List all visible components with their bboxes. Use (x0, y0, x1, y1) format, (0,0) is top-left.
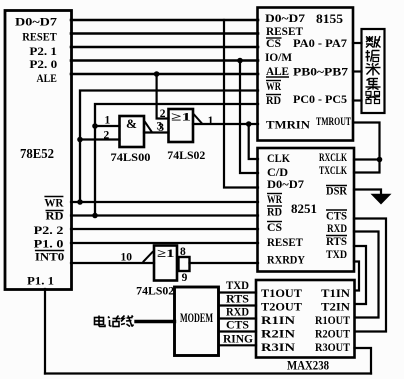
svg-text:P1. 1: P1. 1 (27, 274, 54, 288)
svg-text:8: 8 (180, 246, 186, 258)
pin8-9 tie loop of U8 (179, 257, 190, 271)
wire MODEM RXD to MAX238 R1IN (219, 317, 256, 319)
hanzi label data-collector (vertical) (366, 36, 381, 104)
wire U7 output to 8155 TMRIN (193, 123, 258, 125)
svg-text:TXD: TXD (326, 247, 347, 261)
svg-text:≥1: ≥1 (171, 110, 191, 124)
wire MODEM CTS to MAX238 R2IN (219, 330, 256, 332)
svg-text:RXCLK: RXCLK (319, 150, 347, 164)
wire 8155 PC to collector (353, 99, 362, 101)
svg-text:RTS: RTS (226, 292, 249, 306)
svg-text:RING: RING (223, 332, 253, 346)
nor gate U7 74LS02a box (169, 109, 194, 142)
svg-text:INT0: INT0 (35, 250, 64, 264)
wire U8 tied inputs to 8251 RXRDY (190, 262, 259, 264)
wire U6 input 2 from WR riser (80, 138, 120, 140)
svg-text:R3IN: R3IN (261, 340, 295, 354)
svg-text:2: 2 (160, 108, 166, 120)
svg-text:78E52: 78E52 (20, 146, 54, 161)
wire INT0 to U8 output (71, 262, 154, 264)
svg-text:RESET: RESET (267, 235, 303, 249)
svg-text:TMRIN: TMRIN (266, 118, 310, 132)
svg-text:74LS02: 74LS02 (167, 150, 205, 162)
wire WR 78E52 to 8251 WR (71, 201, 258, 203)
svg-text:2: 2 (104, 130, 110, 142)
wire MODEM TXD to MAX238 T1OUT (219, 291, 256, 293)
hanzi cai (366, 63, 381, 76)
svg-text:R2IN: R2IN (261, 327, 295, 341)
svg-text:P2. 1: P2. 1 (29, 44, 57, 58)
svg-text:T2OUT: T2OUT (261, 300, 302, 314)
node dot RD riser (92, 213, 98, 219)
svg-text:D0~D7: D0~D7 (265, 11, 305, 25)
svg-text:ALE: ALE (37, 71, 57, 85)
svg-text:P2. 2: P2. 2 (34, 223, 64, 237)
node dot input2 (77, 137, 83, 143)
hanzi ju (366, 50, 380, 62)
svg-text:R1OUT: R1OUT (315, 313, 350, 327)
svg-text:8155: 8155 (316, 11, 344, 26)
MCU U1 78E52 box (5, 11, 72, 290)
wire MODEM RTS to MAX238 T2OUT (219, 304, 256, 306)
svg-text:T1IN: T1IN (321, 286, 350, 300)
wire R3OUT to bottom rail (355, 348, 372, 374)
svg-text:RXD: RXD (226, 305, 249, 319)
wire MODEM RING to MAX238 R3IN (219, 344, 256, 346)
wire RXD loop to R1OUT (354, 232, 379, 318)
hanzi dian (95, 316, 106, 327)
svg-text:&: & (126, 116, 137, 131)
node dot input1 (92, 123, 98, 129)
8155 U2 box (258, 8, 354, 141)
svg-text:TXD: TXD (226, 278, 249, 292)
wire P1.0 to 8251 RESET (71, 242, 258, 244)
svg-text:≥1: ≥1 (157, 246, 175, 260)
wire RXCLK (354, 158, 380, 160)
svg-text:P2. 0: P2. 0 (29, 57, 57, 71)
wire D0~D7 bus 78E52 to 8155 (71, 19, 258, 22)
wire ALE to 8155 ALE (71, 73, 258, 76)
wire TXD loop to T1IN (354, 262, 359, 291)
wire RD to 8155 RD (95, 104, 258, 216)
svg-text:9: 9 (182, 272, 188, 284)
svg-text:74LS00: 74LS00 (111, 152, 151, 164)
wire 8155 PA to collector (353, 42, 362, 44)
wire RD 78E52 to 8251 RD (71, 214, 258, 216)
wire RESET 78E52 to 8155 (71, 32, 258, 35)
svg-text:1: 1 (208, 115, 214, 127)
svg-text:D0~D7: D0~D7 (267, 177, 304, 191)
svg-text:3: 3 (158, 122, 164, 134)
svg-text:RESET: RESET (22, 30, 57, 44)
wire 8155 PB to collector (353, 70, 362, 72)
wire P2.2 to 8251 CS (71, 228, 258, 230)
wire U6 output to U7 input 3 (144, 131, 169, 133)
svg-text:T1OUT: T1OUT (261, 286, 302, 300)
hanzi xian (121, 316, 134, 327)
svg-text:D0~D7: D0~D7 (15, 15, 57, 29)
hanzi shu (366, 36, 381, 48)
svg-text:TMROUT: TMROUT (316, 114, 351, 128)
wire CTS loop to R2OUT (354, 219, 386, 332)
wire P2.0 branch to 8251 C/D (240, 61, 258, 174)
data collector box (362, 29, 385, 113)
node dot WR riser (77, 199, 83, 205)
svg-text:IO/M: IO/M (265, 50, 292, 64)
wire WR to 8155 WR (80, 91, 258, 203)
svg-text:T2IN: T2IN (321, 300, 350, 314)
svg-text:CTS: CTS (226, 318, 249, 332)
svg-text:74LS02: 74LS02 (136, 286, 174, 298)
wire P1.1 down from 78E52 (44, 289, 46, 374)
svg-text:MAX238: MAX238 (287, 359, 329, 373)
wire branch to 8251 CLK (249, 124, 258, 159)
slash on U8 output (144, 252, 153, 262)
svg-text:CLK: CLK (267, 151, 291, 165)
svg-text:R1IN: R1IN (261, 313, 295, 327)
svg-text:MODEM: MODEM (180, 311, 213, 325)
slash on U7 output (194, 115, 202, 124)
hanzi ji (366, 79, 381, 90)
wire DSR to ground (354, 190, 381, 196)
node dot RXCLK (377, 157, 383, 163)
svg-text:10: 10 (121, 252, 133, 264)
node dot ALE branch (154, 71, 160, 77)
svg-text:R3OUT: R3OUT (315, 340, 350, 354)
slash on U6 output (145, 122, 152, 132)
svg-text:1: 1 (105, 115, 111, 127)
nor gate U8 74LS02b box (154, 246, 177, 281)
svg-text:PB0~PB7: PB0~PB7 (293, 65, 348, 79)
svg-text:PC0 - PC5: PC0 - PC5 (293, 92, 347, 106)
hanzi hua (108, 316, 120, 327)
svg-text:RXRDY: RXRDY (267, 253, 305, 267)
svg-text:R2OUT: R2OUT (315, 327, 350, 341)
nand gate U6 74LS00 box (120, 116, 145, 147)
svg-text:RXD: RXD (327, 221, 347, 235)
wire P2.1 to 8155 CS (71, 46, 258, 49)
telephone line wire (136, 320, 175, 323)
MODEM U5 box (175, 287, 219, 356)
wire TMROUT loop to RXCLK TXCLK (353, 123, 380, 173)
svg-text:PA0 - PA7: PA0 - PA7 (293, 36, 347, 50)
ground symbol (371, 194, 392, 205)
wire ALE branch to U7 input 2 (157, 74, 169, 119)
node dot TMRIN-CLK branch (246, 121, 252, 127)
hanzi qi (366, 92, 380, 104)
hanzi label telephone-line (95, 316, 134, 327)
MAX238 U4 box (256, 280, 355, 358)
svg-text:8251: 8251 (291, 201, 317, 216)
node dot P2.0 branch (237, 58, 243, 64)
wire D0~D7 branch to 8251 (224, 20, 258, 188)
wire U6 input 1 from RD riser (95, 125, 120, 127)
svg-text:TXCLK: TXCLK (319, 163, 347, 177)
svg-text:P1. 0: P1. 0 (34, 237, 64, 251)
8251 U3 box (258, 148, 355, 272)
wire bottom rail (45, 372, 371, 374)
wire RTS loop to T2IN (354, 246, 366, 304)
svg-text:WR: WR (44, 196, 63, 210)
svg-text:ALE: ALE (266, 64, 289, 78)
wire P2.0 to 8155 IO/M (71, 59, 258, 62)
